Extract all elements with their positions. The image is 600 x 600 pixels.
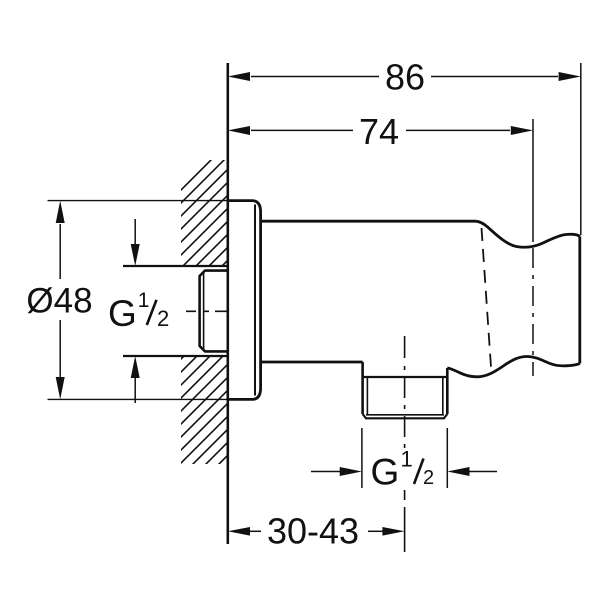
holder right edge xyxy=(578,237,581,364)
outlet shoulder line xyxy=(363,376,448,378)
holder wavy top xyxy=(476,221,580,247)
svg-text:1: 1 xyxy=(401,446,413,471)
dim G1/2 bottom extensions xyxy=(361,428,363,488)
outlet bottom inner xyxy=(366,414,444,416)
dim O48 extension bottom xyxy=(48,398,228,400)
body top edge xyxy=(261,220,476,223)
wall hatching upper xyxy=(91,130,384,280)
dimension 86 xyxy=(228,57,581,98)
outlet port xyxy=(363,362,448,418)
label G1/2 left xyxy=(108,289,169,334)
dim 86 extension right xyxy=(580,63,582,235)
outlet right edge xyxy=(446,368,449,414)
outlet centerline xyxy=(404,336,406,552)
svg-text:86: 86 xyxy=(385,57,425,98)
holder centerline xyxy=(532,119,534,376)
body bottom edge xyxy=(261,361,363,364)
svg-text:G: G xyxy=(371,452,400,493)
hole top edge / G1/2 extension top xyxy=(123,265,228,267)
svg-text:2: 2 xyxy=(157,306,169,331)
label G1/2 bottom xyxy=(371,446,435,492)
outlet thread inner left xyxy=(366,377,368,415)
outlet left edge xyxy=(361,362,364,414)
dimension G1/2 left arrows xyxy=(131,219,140,403)
wall line xyxy=(227,63,230,544)
pipe centerline xyxy=(186,310,228,312)
svg-text:2: 2 xyxy=(423,467,434,489)
dim O48 extension top xyxy=(48,200,228,202)
dimension G1/2 bottom xyxy=(311,467,497,476)
svg-text:30-43: 30-43 xyxy=(267,511,359,552)
holder wavy bottom xyxy=(447,356,580,376)
hole bottom edge / G1/2 extension bottom xyxy=(123,355,228,357)
threaded pipe in wall xyxy=(200,271,228,352)
dimension O48 xyxy=(26,201,92,400)
dimension 30-43 xyxy=(228,511,405,552)
flange xyxy=(228,201,261,400)
svg-text:1: 1 xyxy=(138,289,150,312)
svg-text:Ø48: Ø48 xyxy=(26,282,92,321)
outlet bottom outer xyxy=(363,414,448,418)
dimension 74 xyxy=(228,111,533,152)
hidden edge dashed xyxy=(482,228,492,367)
svg-text:74: 74 xyxy=(359,111,399,152)
svg-text:G: G xyxy=(108,293,137,334)
outlet thread inner right xyxy=(442,377,444,415)
wall hatching lower xyxy=(60,290,432,480)
